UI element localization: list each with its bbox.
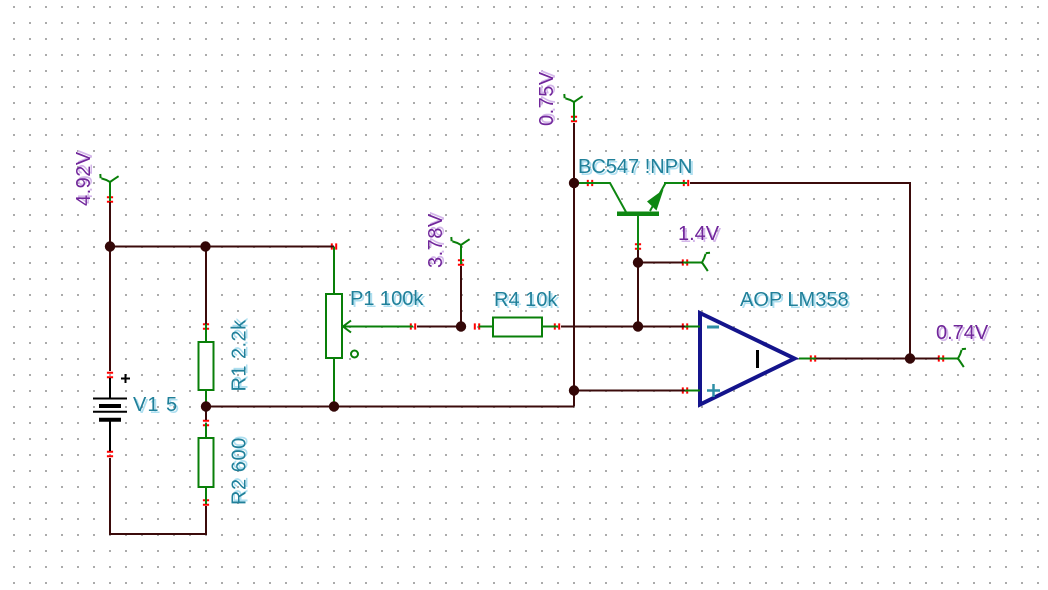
tick op-amp minus pin [683,323,687,329]
tick P1 bottom pin [331,404,337,408]
op-amp minus symbol [707,326,719,329]
junction top rail / R1 [200,241,210,251]
tick battery minus pin [107,452,113,456]
op-amp U1 [700,313,795,405]
wire: wiper to 3.78V node [417,326,461,328]
tick R4 left pin [475,323,479,329]
resistor R2 [199,423,214,504]
junction plus input / mid rail [569,385,579,395]
potentiometer P1 [326,247,413,404]
svg-text:R4 10k: R4 10k [494,289,558,311]
op-amp plus symbol [707,384,720,397]
svg-text:4.92V: 4.92V [73,151,95,206]
wire: base node to 1.4V probe [638,262,687,264]
tick 0.74V probe pin [939,355,943,361]
svg-text:P1 100k: P1 100k [350,288,424,310]
tick battery plus pin [107,373,113,377]
pin tick marks (red) [107,117,943,505]
junction base / 1.4V probe [633,257,643,267]
junction output / feedback [905,353,915,363]
probe 1.4V [683,253,710,271]
tick P1 wiper pin [411,323,415,329]
tick base pin [635,244,641,248]
wire: 0.75V vertical line down to plus node and mid rail [573,123,575,407]
wire: 4.92V probe stem down to top-left rail [109,202,111,247]
svg-text:3.78V: 3.78V [425,213,447,268]
resistor R1 [199,324,214,404]
tick 4.92V probe pin [107,197,113,201]
wire: battery top lead from rail [109,247,111,372]
svg-text:R1 2.2k: R1 2.2k [229,319,251,392]
probe 3.78V [451,237,469,264]
tick R4 right pin [555,323,559,329]
tick R2 bottom pin [203,500,209,504]
op-amp internal bar [756,350,759,368]
wire: op-amp output to 0.74V probe [816,358,943,360]
tick 0.75V probe pin [571,117,577,121]
tick 3.78V probe pin [458,260,464,264]
tick 1.4V probe pin [683,259,687,265]
wiper circle o [351,351,358,358]
tick R1 top pin [203,324,209,328]
svg-text:1.4V: 1.4V [678,223,720,245]
svg-text:0.74V: 0.74V [936,322,989,344]
wire: middle horizontal rail y=406 [206,406,574,408]
tick op-amp plus pin [683,387,687,393]
wire: emitter feedback to output node [690,183,910,359]
probe 4.92V [100,174,118,201]
wire: top-left horizontal rail y=246 [109,246,334,248]
probe 0.74V [939,349,966,367]
resistor R4 [479,318,558,337]
tick P1 top pin [332,243,336,249]
junction base / minus input [633,321,643,331]
svg-text:0.75V: 0.75V [536,71,558,126]
junction collector / 0.75V line [569,178,579,188]
junction R1 / R2 / mid rail [201,401,211,411]
svg-text:BC547 !NPN: BC547 !NPN [578,156,693,178]
wire: base lead down to minus node [637,250,639,327]
op-amp input pin stubs [685,327,816,391]
wire: R1/R2 mid node stub [205,407,207,421]
transistor emitter arrow [647,190,664,211]
tick emitter pin [684,180,688,186]
junction wiper / R4 / 3.78V [456,321,466,331]
svg-text:AOP LM358: AOP LM358 [740,289,849,311]
tick R2 top pin [203,421,209,425]
wire: R1 top lead from rail [205,247,207,325]
wire: plus node to op-amp plus [574,390,687,392]
tick collector pin [588,180,592,186]
wire: battery bottom to bottom rail up to R2 [110,458,206,534]
transistor Q1 BC547 [579,183,687,250]
svg-text:R2 600: R2 600 [229,437,251,505]
battery V1 [93,374,130,451]
tick op-amp output pin [811,355,815,361]
junction P1 bottom / mid rail [329,401,339,411]
probe 0.75V [564,94,582,121]
tick battery top wire [107,244,113,248]
wire: 3.78V probe down to node [460,266,462,327]
junction 4.92V rail / battery [105,241,115,251]
wire: R4 right to op-amp minus node [561,326,687,328]
svg-text:V1 5: V1 5 [133,394,178,416]
